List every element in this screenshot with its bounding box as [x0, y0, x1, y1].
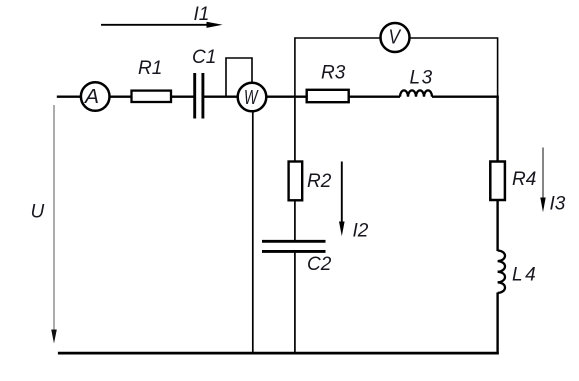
svg-text:I3: I3: [550, 194, 566, 215]
wire: [349, 95, 400, 97]
wire: [294, 200, 296, 241]
wire: [432, 95, 499, 97]
resistor R4: [490, 162, 536, 201]
resistor R1: [132, 58, 172, 102]
wattmeter voltage-coil loop: [226, 58, 252, 97]
wire: [58, 352, 499, 355]
wire: [294, 97, 296, 162]
current arrow I2: [339, 162, 369, 242]
svg-text:A: A: [84, 86, 99, 108]
current arrow I3: [540, 148, 565, 215]
svg-text:V: V: [389, 27, 402, 49]
svg-text:I2: I2: [353, 221, 369, 242]
svg-text:I1: I1: [194, 4, 210, 25]
wattmeter W: [238, 83, 267, 112]
resistor R3: [307, 63, 349, 103]
wire: [267, 95, 308, 97]
wire: [57, 95, 81, 97]
wire: [171, 95, 194, 97]
wire: [294, 251, 296, 352]
wire: [110, 95, 133, 97]
resistor R2: [289, 162, 332, 201]
svg-text:W: W: [244, 87, 259, 109]
voltmeter V: [381, 23, 410, 52]
svg-text:L3: L3: [410, 68, 434, 89]
svg-text:R1: R1: [138, 58, 162, 79]
voltage arrow U: [31, 105, 57, 344]
ammeter A: [81, 82, 110, 111]
svg-text:U: U: [31, 202, 45, 223]
wire: [496, 97, 498, 162]
current arrow I1: [101, 4, 223, 28]
svg-text:R2: R2: [307, 171, 332, 192]
capacitor C1: [192, 47, 216, 119]
svg-text:L4: L4: [512, 265, 538, 286]
wire: [411, 38, 498, 97]
wire: [204, 95, 238, 97]
inductor L4: [498, 251, 539, 293]
wire: [496, 293, 498, 353]
svg-text:R3: R3: [321, 63, 346, 84]
inductor L3: [400, 68, 434, 97]
capacitor C2: [262, 241, 332, 275]
wire: [295, 38, 380, 97]
wire: [252, 112, 254, 353]
svg-text:C1: C1: [192, 47, 216, 68]
svg-text:R4: R4: [512, 169, 536, 190]
wire: [496, 200, 498, 251]
svg-text:C2: C2: [307, 254, 332, 275]
